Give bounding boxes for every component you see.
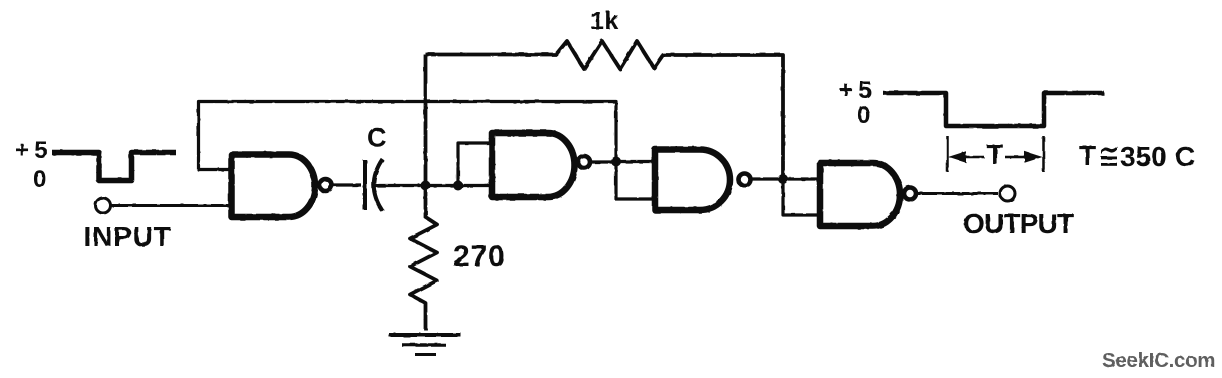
svg-text:SeekIC.com: SeekIC.com	[1102, 349, 1215, 372]
svg-text:0: 0	[857, 102, 870, 129]
svg-text:OUTPUT: OUTPUT	[963, 208, 1074, 239]
svg-text:INPUT: INPUT	[84, 221, 172, 252]
svg-text:1k: 1k	[590, 7, 619, 35]
svg-text:270: 270	[453, 240, 505, 273]
svg-text:+5: +5	[15, 137, 53, 164]
svg-text:+5: +5	[839, 77, 877, 104]
svg-text:C: C	[367, 123, 387, 153]
svg-text:350: 350	[1120, 141, 1167, 172]
svg-text:C: C	[1175, 141, 1195, 172]
svg-text:0: 0	[33, 166, 46, 193]
svg-text:T: T	[987, 139, 1004, 170]
svg-text:T: T	[1079, 140, 1096, 171]
